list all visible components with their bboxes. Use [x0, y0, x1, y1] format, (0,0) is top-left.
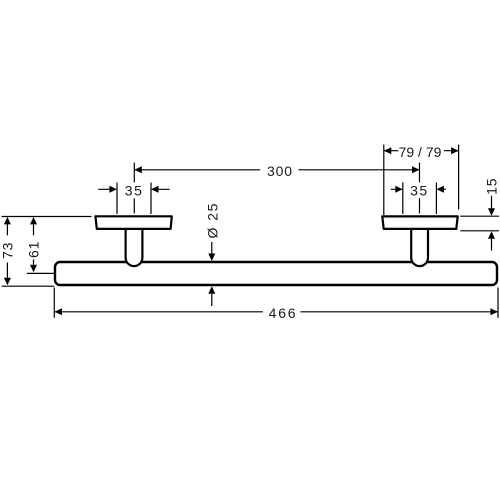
ext line bar bottom left [2, 285, 55, 287]
left centerline [133, 163, 135, 214]
dim 73 line [6, 224, 8, 277]
dim 79/79 line [384, 150, 459, 152]
ext line 35 left b [150, 183, 152, 215]
dim 466 arrow left [55, 308, 63, 315]
dim 300 arrow left [134, 166, 142, 173]
dim 79/79 arrow left [384, 147, 392, 154]
ext line plate bottom right [460, 230, 499, 232]
svg-text:35: 35 [125, 183, 144, 199]
svg-text:Ø 25: Ø 25 [205, 202, 221, 238]
dim 35 left: tails [98, 188, 169, 190]
svg-text:300: 300 [267, 163, 293, 179]
dim 15 arrow up [488, 231, 495, 239]
ext line 466 right [497, 288, 499, 318]
dim 79/79 arrow right [451, 147, 459, 154]
svg-text:466: 466 [269, 305, 298, 321]
dim 466 arrow right [490, 308, 498, 315]
ext line 79/79 left [383, 145, 385, 216]
right post [411, 228, 428, 266]
dim 15 arrow down tail [491, 196, 493, 209]
dim 35 right arrow b [436, 186, 444, 193]
dim 15 arrow up tail [491, 239, 493, 251]
right wall plate [382, 216, 457, 229]
dim d25 arrow down [208, 254, 215, 262]
dim d25 arrow up [208, 286, 215, 294]
dim 35 left arrow a [109, 186, 117, 193]
dim 300 line [134, 169, 419, 171]
svg-text:61: 61 [26, 241, 42, 258]
dim 61 arrow up [30, 217, 37, 225]
left wall plate [95, 216, 171, 229]
ext line wall top left [2, 216, 92, 218]
dim 61 arrow down [30, 265, 37, 273]
dim 61 line [33, 224, 35, 264]
dim 35 right: tails [391, 188, 446, 190]
grab bar body [55, 262, 497, 285]
svg-text:15: 15 [483, 178, 499, 195]
dim 300 arrow right [412, 166, 420, 173]
dim 35 left arrow b [151, 186, 159, 193]
ext line 35 right a [402, 183, 404, 215]
svg-text:79 / 79: 79 / 79 [399, 144, 442, 160]
left post [126, 228, 143, 266]
ext line 35 left a [116, 183, 118, 215]
ext line bar axis left [27, 272, 55, 274]
dim d25 arrow down tail [211, 242, 213, 254]
right centerline [419, 163, 421, 214]
ext line 466 left [53, 288, 55, 318]
ext line 79/79 right [458, 145, 460, 210]
ext line 35 right b [435, 183, 437, 215]
svg-text:73: 73 [0, 242, 15, 259]
dim 35 right arrow a [395, 186, 403, 193]
svg-text:35: 35 [410, 183, 429, 199]
dim 15 arrow down [488, 208, 495, 216]
dim 73 arrow down [4, 278, 11, 286]
dim 466 line [55, 311, 498, 313]
dim 73 arrow up [4, 217, 11, 225]
ext line plate top right [460, 215, 499, 217]
dim d25 arrow up tail [211, 294, 213, 306]
